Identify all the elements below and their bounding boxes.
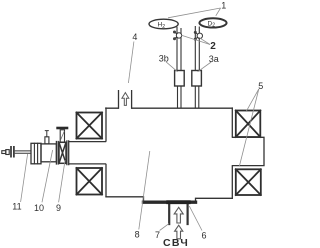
svg-text:7: 7 — [155, 230, 160, 240]
svg-text:H2: H2 — [158, 22, 166, 30]
svg-text:11: 11 — [12, 202, 21, 212]
svg-text:10: 10 — [34, 203, 44, 213]
svg-text:9: 9 — [56, 203, 61, 213]
svg-text:3b: 3b — [159, 54, 169, 64]
svg-text:3a: 3a — [209, 54, 219, 64]
svg-text:5: 5 — [258, 81, 263, 91]
svg-text:D2: D2 — [208, 20, 216, 28]
svg-text:8: 8 — [135, 230, 140, 240]
svg-text:СВЧ: СВЧ — [163, 237, 189, 248]
svg-text:6: 6 — [202, 231, 207, 241]
svg-text:1: 1 — [221, 1, 226, 11]
svg-text:4: 4 — [132, 32, 137, 42]
svg-text:2: 2 — [210, 41, 216, 52]
